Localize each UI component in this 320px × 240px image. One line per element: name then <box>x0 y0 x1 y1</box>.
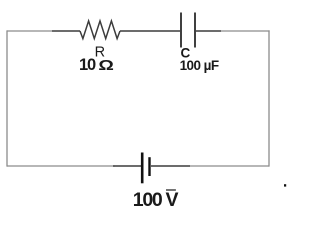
wire: bottom-left grey segment <box>7 165 115 167</box>
resistor R1 zigzag <box>80 21 120 39</box>
wire: left vertical grey <box>6 30 8 166</box>
svg-text:Ω: Ω <box>98 58 114 74</box>
resistor R1 lead left (dark) <box>52 30 80 32</box>
svg-text:100 µF: 100 µF <box>180 58 219 73</box>
stray dot (period) <box>284 184 286 186</box>
battery B1 long plate <box>141 153 144 184</box>
wire: top-left grey segment <box>7 30 52 32</box>
wire: top-right grey segment <box>221 30 270 32</box>
wire: right vertical grey <box>268 30 270 166</box>
capacitor C1 left plate <box>180 13 182 48</box>
overline above V <box>166 189 176 191</box>
wire: bottom-right grey segment <box>190 165 269 167</box>
svg-text:10: 10 <box>79 56 96 74</box>
capacitor C1 lead right (dark) <box>196 30 221 32</box>
battery B1 short plate <box>148 157 150 176</box>
battery B1 lead right (dark) <box>151 165 190 167</box>
capacitor C1 right plate <box>194 13 196 48</box>
svg-text:100 V: 100 V <box>133 189 179 211</box>
wire: dark lead between resistor and capacitor <box>120 30 180 32</box>
battery B1 lead left (dark) <box>113 165 141 167</box>
